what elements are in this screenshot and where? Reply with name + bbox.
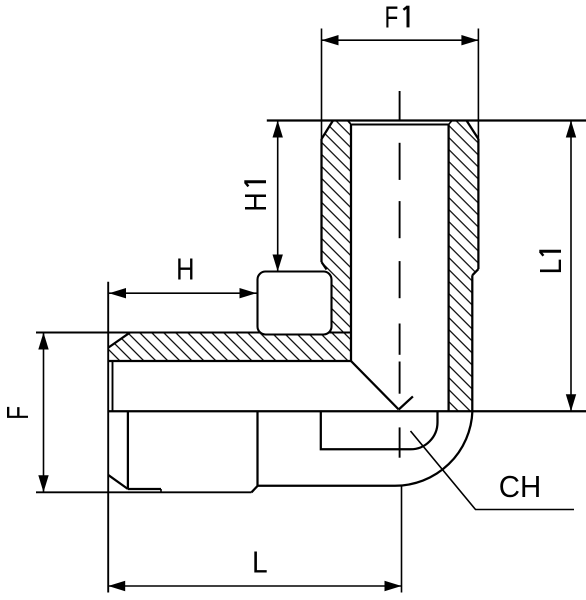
- H1 down arrow: [273, 255, 283, 272]
- bore wall left: [350, 125, 352, 362]
- top chamfer left: [322, 121, 334, 140]
- svg-text:H: H: [176, 251, 194, 286]
- L1 up arrow: [566, 121, 576, 138]
- F1 ext left: [321, 29, 323, 140]
- L left arrow: [108, 581, 125, 591]
- L1 dim line: [570, 121, 572, 412]
- top chamfer right: [467, 121, 479, 140]
- label F (rotated): [0, 406, 35, 420]
- CH leader: [411, 431, 575, 510]
- outer wall right upper: [477, 139, 479, 269]
- bottom edge + F bottom ext: [36, 491, 252, 493]
- svg-text:H: H: [238, 192, 273, 212]
- L right ext: [401, 487, 403, 593]
- svg-text:L: L: [252, 544, 268, 579]
- L right arrow: [385, 581, 402, 591]
- tube block lower-left: left edge: [127, 411, 129, 489]
- step diagonal to body bottom: [252, 486, 258, 492]
- bore end face line: [351, 124, 449, 126]
- band top edge + F top ext: [36, 332, 351, 334]
- outer wall left: [320, 139, 322, 262]
- H1 up arrow: [273, 121, 283, 138]
- label L1 (rotated): [533, 251, 568, 274]
- F1 left arrow: [322, 35, 339, 45]
- svg-text:F: F: [385, 0, 399, 34]
- bore wall right: [447, 125, 449, 412]
- top edge line (tube top + H1 ext + L1 ext): [267, 119, 586, 121]
- thread line vertical (top half): [112, 361, 114, 411]
- hex block (CH) outline: [321, 411, 438, 449]
- outer wall right lower: [471, 275, 473, 411]
- bore mouth chamfer left: [348, 121, 352, 125]
- tube block ledge: [128, 488, 161, 490]
- F1 right arrow: [461, 35, 478, 45]
- svg-text:CH: CH: [499, 469, 542, 504]
- left face + H/L left extension line: [107, 282, 109, 593]
- vertical bore centerline (dashed): [399, 91, 401, 458]
- F1 ext right: [477, 29, 479, 159]
- L dim line: [108, 585, 401, 587]
- ledge step: [160, 489, 162, 492]
- hatch right wall: [449, 121, 479, 412]
- label H1 (rotated): [238, 182, 273, 212]
- H dim line: [109, 292, 257, 294]
- tube block right edge: [256, 411, 258, 486]
- body bottom edge + corner arc: [258, 411, 473, 486]
- left end chamfer top: [109, 333, 131, 348]
- svg-text:F: F: [0, 406, 35, 420]
- drill tip right arm: [399, 396, 413, 409]
- thread relief step left: [322, 262, 327, 270]
- svg-text:L: L: [533, 259, 568, 275]
- seat line + L1 bottom ext: [108, 410, 586, 412]
- boss block at elbow corner: [258, 272, 332, 335]
- hatch left wall + horizontal band: [109, 121, 352, 362]
- H right arrow: [240, 288, 257, 298]
- F up arrow: [38, 333, 48, 350]
- H left arrow: [109, 288, 126, 298]
- thread relief step right: [472, 269, 478, 275]
- bore mouth chamfer right: [449, 121, 453, 125]
- F1 dim line: [322, 39, 479, 41]
- bottom-left chamfer: [108, 475, 128, 489]
- L1 down arrow: [566, 394, 576, 411]
- H1 dim line: [277, 121, 279, 272]
- band bottom edge: [109, 360, 352, 362]
- F down arrow: [38, 475, 48, 492]
- inner corner diagonal (bore intersection): [351, 361, 399, 410]
- F dim line: [43, 333, 45, 493]
